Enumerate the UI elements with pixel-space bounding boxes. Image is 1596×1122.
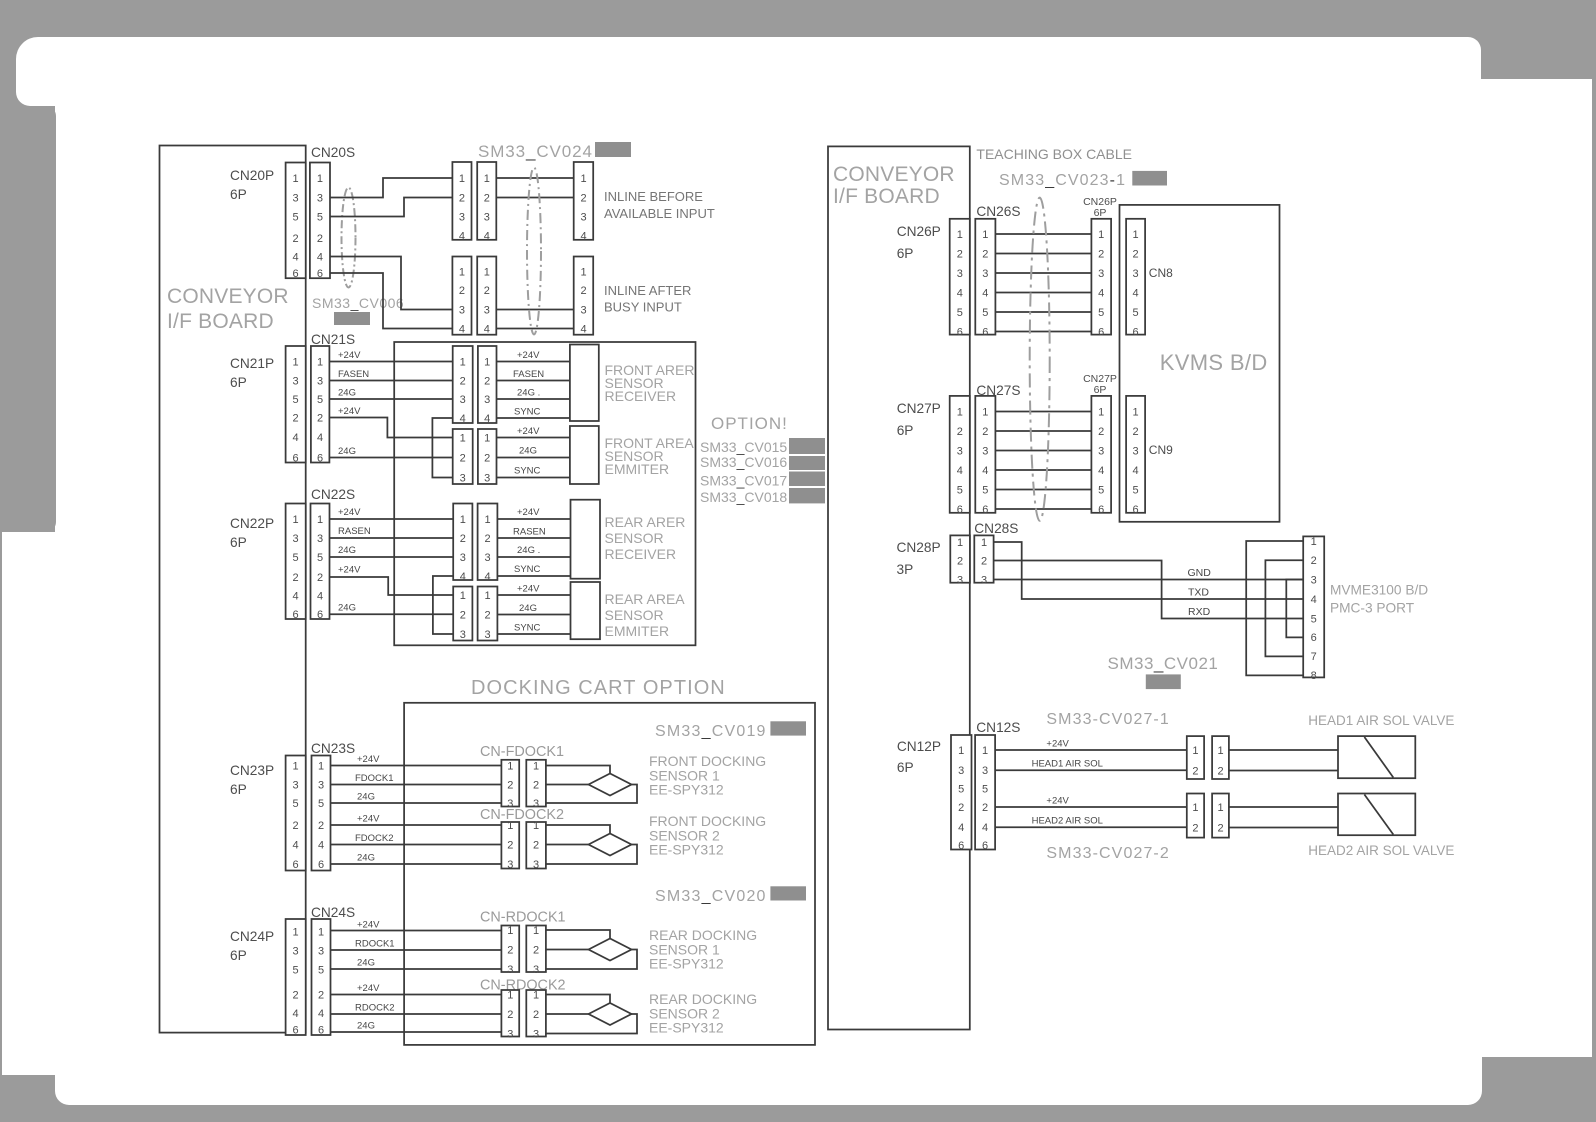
svg-text:3: 3 <box>460 472 466 484</box>
svg-text:1: 1 <box>580 173 586 185</box>
svg-text:6: 6 <box>293 1024 299 1036</box>
label CN24P 6P <box>230 929 274 963</box>
svg-text:2: 2 <box>957 426 963 438</box>
svg-text:3: 3 <box>293 945 299 957</box>
label CN27P 6P small <box>1083 373 1117 396</box>
label FRONT ARER SENSOR RECEIVER <box>605 362 695 404</box>
svg-text:1: 1 <box>484 173 490 185</box>
svg-text:CN26S: CN26S <box>976 204 1020 219</box>
svg-text:AVAILABLE INPUT: AVAILABLE INPUT <box>604 206 715 221</box>
connector CN24P <box>286 919 306 1036</box>
svg-text:SENSOR: SENSOR <box>605 607 664 623</box>
wire CN22S pin2 +24V to F1 <box>330 577 454 595</box>
label REAR DOCKING SENSOR 1 EE-SPY312 <box>649 927 757 972</box>
svg-text:FASEN: FASEN <box>338 369 369 380</box>
svg-text:2: 2 <box>484 609 490 621</box>
svg-text:1: 1 <box>957 537 963 549</box>
svg-text:3: 3 <box>957 268 963 280</box>
svg-text:1: 1 <box>293 760 299 772</box>
svg-text:1: 1 <box>982 745 988 757</box>
svg-text:8: 8 <box>1311 670 1317 682</box>
svg-text:5: 5 <box>293 798 299 810</box>
wires CN24S to CN-RDOCK2 <box>331 995 502 1033</box>
gray marker CV015 <box>789 438 825 454</box>
connector 4P inline-before right <box>477 162 496 242</box>
svg-text:SM33-CV027-1: SM33-CV027-1 <box>1046 711 1169 728</box>
wire CN22S pin3 RASEN to E1 <box>330 537 454 539</box>
svg-text:6: 6 <box>1133 326 1139 338</box>
svg-text:5: 5 <box>1311 613 1317 625</box>
svg-text:CN12S: CN12S <box>976 720 1020 735</box>
svg-text:CN-RDOCK2: CN-RDOCK2 <box>480 978 566 994</box>
svg-text:4: 4 <box>484 230 490 242</box>
svg-text:EE-SPY312: EE-SPY312 <box>649 1020 724 1036</box>
wire CN22S pin1 +24V to E1 <box>330 518 454 520</box>
svg-text:4: 4 <box>293 251 299 263</box>
svg-text:2: 2 <box>460 533 466 545</box>
svg-text:1: 1 <box>981 537 987 549</box>
wire CN12S pin4 HEAD2 AIR SOL to H3 <box>995 826 1187 828</box>
svg-text:1: 1 <box>293 926 299 938</box>
connector 4P inline-after right <box>477 257 496 336</box>
svg-text:3: 3 <box>507 964 513 976</box>
svg-text:3: 3 <box>484 472 490 484</box>
svg-text:2: 2 <box>317 412 323 424</box>
svg-text:SM33_CV015: SM33_CV015 <box>700 439 787 455</box>
svg-text:1: 1 <box>1217 802 1223 814</box>
connector CN26P cable side <box>1091 219 1111 338</box>
right board title CONVEYOR I/F BOARD <box>833 163 955 208</box>
svg-text:2: 2 <box>293 572 299 584</box>
wire labels rear receiver <box>513 507 546 575</box>
svg-text:2: 2 <box>317 233 323 245</box>
svg-text:3: 3 <box>580 304 586 316</box>
connector CN-RDOCK2 right <box>526 989 546 1040</box>
connector CN26S <box>975 219 995 338</box>
wire CN-FDOCK2 pin2 to sensor left <box>546 844 589 846</box>
svg-text:1: 1 <box>317 356 323 368</box>
rear area sensor receiver block <box>571 500 601 579</box>
svg-text:3: 3 <box>1133 268 1139 280</box>
svg-text:1: 1 <box>1311 536 1317 548</box>
wires CN24S to CN-RDOCK1 <box>331 931 502 970</box>
wire CN28S pin3 GND to MVME pin3 <box>994 579 1304 581</box>
svg-text:+24V: +24V <box>1046 796 1069 807</box>
wire D2 to emitter SYNC <box>497 477 570 479</box>
svg-text:+24V: +24V <box>357 920 380 931</box>
svg-text:SM33_CV019: SM33_CV019 <box>655 723 767 740</box>
svg-text:RASEN: RASEN <box>513 527 546 538</box>
gray marker CV018 <box>789 488 825 503</box>
svg-text:CN12P: CN12P <box>897 739 941 754</box>
svg-text:+24V: +24V <box>517 507 540 518</box>
svg-text:3: 3 <box>957 574 963 586</box>
svg-text:24G: 24G <box>338 388 356 399</box>
svg-text:1: 1 <box>957 229 963 241</box>
wire CN21S pin2 +24V to D1 <box>329 418 452 438</box>
svg-text:24G: 24G <box>357 792 375 803</box>
svg-text:6: 6 <box>1133 504 1139 516</box>
connector 4P front-receiver left <box>453 346 473 425</box>
svg-text:4: 4 <box>317 590 323 602</box>
svg-text:4: 4 <box>1098 465 1104 477</box>
svg-text:4: 4 <box>982 465 988 477</box>
connector 2P head1 right <box>1212 736 1229 779</box>
svg-text:SM33_CV018: SM33_CV018 <box>700 489 787 505</box>
svg-text:5: 5 <box>318 798 324 810</box>
svg-text:3: 3 <box>533 964 539 976</box>
svg-text:+24V: +24V <box>357 754 380 765</box>
svg-text:5: 5 <box>293 964 299 976</box>
svg-text:6: 6 <box>293 452 299 464</box>
svg-text:6P: 6P <box>230 375 247 390</box>
svg-text:1: 1 <box>533 820 539 832</box>
svg-text:CN20S: CN20S <box>311 145 355 160</box>
svg-text:6: 6 <box>982 504 988 516</box>
svg-text:GND: GND <box>1188 567 1212 579</box>
connector CN21S <box>311 346 330 464</box>
wire E2 to receiver 24G <box>497 556 570 558</box>
svg-text:6: 6 <box>1098 504 1104 516</box>
connector 4P inline-before left <box>452 162 471 242</box>
svg-text:FDOCK2: FDOCK2 <box>355 833 394 844</box>
label INLINE AFTER BUSY INPUT <box>604 283 691 315</box>
svg-text:3: 3 <box>484 211 490 223</box>
label CN23P 6P <box>230 763 274 797</box>
jumper MVME pin2 to pin7 <box>1265 560 1303 656</box>
connector CN-FDOCK2 left <box>501 820 519 871</box>
svg-text:CN22S: CN22S <box>311 487 355 502</box>
svg-text:1: 1 <box>484 266 490 278</box>
connector CN-FDOCK1 left <box>501 760 519 810</box>
svg-text:1: 1 <box>318 926 324 938</box>
svg-text:1: 1 <box>484 590 490 602</box>
svg-text:SM33_CV024: SM33_CV024 <box>478 142 593 161</box>
svg-text:1: 1 <box>317 514 323 526</box>
svg-text:3: 3 <box>460 629 466 641</box>
svg-text:CONVEYOR: CONVEYOR <box>833 163 955 186</box>
svg-text:6: 6 <box>958 840 964 852</box>
wire CN-RDOCK1 pin1 to sensor top <box>546 930 610 939</box>
svg-text:SENSOR: SENSOR <box>605 530 664 546</box>
svg-text:1: 1 <box>317 173 323 185</box>
svg-text:4: 4 <box>484 571 490 583</box>
label CN12P 6P <box>897 739 941 775</box>
connector CN24S <box>312 919 331 1036</box>
wires H4 to head2 valve <box>1229 807 1338 828</box>
svg-text:4: 4 <box>1133 465 1139 477</box>
wire CN-FDOCK1 pin3 to sensor right <box>546 785 637 804</box>
svg-text:3: 3 <box>507 859 513 871</box>
svg-text:3: 3 <box>459 304 465 316</box>
svg-text:2: 2 <box>484 375 490 387</box>
svg-text:TXD: TXD <box>1188 587 1209 599</box>
wire CN22S pin6 24G to F1 <box>330 613 454 615</box>
connector CN27P board <box>950 396 970 516</box>
wire CN21S pin5 24G to C1 <box>329 398 452 400</box>
wire CN21S pin3 FASEN to C1 <box>329 380 452 382</box>
svg-text:2: 2 <box>982 248 988 260</box>
svg-text:FDOCK1: FDOCK1 <box>355 773 394 784</box>
wires CN23S to CN-FDOCK1 <box>331 766 502 804</box>
svg-text:24G: 24G <box>338 545 356 556</box>
svg-text:CN20P: CN20P <box>230 168 274 183</box>
svg-text:3: 3 <box>484 394 490 406</box>
svg-text:I/F BOARD: I/F BOARD <box>833 185 940 208</box>
svg-text:4: 4 <box>293 432 299 444</box>
connector CN-RDOCK1 right <box>526 925 546 976</box>
svg-text:6: 6 <box>957 326 963 338</box>
wire CN-RDOCK2 pin1 to sensor top <box>546 995 610 1004</box>
wire CN-RDOCK2 pin3 to sensor right <box>546 1014 637 1034</box>
svg-text:24G: 24G <box>357 1021 375 1032</box>
svg-text:EE-SPY312: EE-SPY312 <box>649 956 724 972</box>
svg-text:3: 3 <box>318 779 324 791</box>
svg-text:5: 5 <box>982 484 988 496</box>
connector CN27P cable side <box>1091 396 1111 516</box>
svg-text:2: 2 <box>459 285 465 297</box>
svg-text:2: 2 <box>982 426 988 438</box>
wire CN-RDOCK1 pin3 to sensor right <box>546 950 637 970</box>
svg-text:1: 1 <box>293 356 299 368</box>
wire E2 to receiver SYNC <box>497 575 570 577</box>
connector MVME3100 PMC-3 <box>1303 536 1324 682</box>
wire C2 to receiver SYNC <box>497 417 570 419</box>
svg-text:4: 4 <box>460 571 466 583</box>
svg-text:3: 3 <box>317 375 323 387</box>
svg-text:RXD: RXD <box>1188 606 1211 618</box>
head1 air sol valve <box>1338 736 1415 778</box>
svg-text:SM33_CV017: SM33_CV017 <box>700 473 787 489</box>
wire SYNC bracket E1 pin4 to F1 pin3 <box>433 576 453 634</box>
svg-text:2: 2 <box>460 452 466 464</box>
svg-text:INLINE AFTER: INLINE AFTER <box>604 283 691 298</box>
svg-text:2: 2 <box>507 1009 513 1021</box>
connector CN9 <box>1126 396 1145 516</box>
svg-text:5: 5 <box>982 783 988 795</box>
label CN22P 6P <box>230 516 274 550</box>
svg-text:6: 6 <box>317 609 323 621</box>
svg-text:4: 4 <box>293 590 299 602</box>
svg-text:2: 2 <box>1098 248 1104 260</box>
jumper MVME pin3 to pin6 <box>1286 580 1303 638</box>
wire CN-FDOCK1 pin2 to sensor left <box>546 784 589 786</box>
svg-text:2: 2 <box>533 839 539 851</box>
connector CN28S <box>974 535 993 586</box>
svg-text:BUSY INPUT: BUSY INPUT <box>604 300 682 315</box>
svg-text:5: 5 <box>293 394 299 406</box>
svg-text:EE-SPY312: EE-SPY312 <box>649 782 724 798</box>
wire CN20S pin3 to A1 pin1 <box>330 178 452 198</box>
svg-text:5: 5 <box>957 484 963 496</box>
svg-text:1: 1 <box>1098 229 1104 241</box>
svg-text:TEACHING BOX CABLE: TEACHING BOX CABLE <box>976 146 1132 162</box>
svg-text:24G .: 24G . <box>517 388 540 399</box>
svg-text:1: 1 <box>507 989 513 1001</box>
svg-text:24G: 24G <box>357 958 375 969</box>
wire C2 to receiver +24V <box>497 361 570 363</box>
svg-text:6P: 6P <box>897 246 914 261</box>
label FRONT DOCKING SENSOR 1 EE-SPY312 <box>649 753 766 798</box>
svg-text:CN-FDOCK2: CN-FDOCK2 <box>480 807 564 823</box>
connector CN21P <box>286 346 306 464</box>
right conveyor I/F board box <box>828 146 970 1029</box>
label REAR AREA SENSOR EMMITER <box>605 591 686 639</box>
svg-text:SM33_CV020: SM33_CV020 <box>655 888 767 905</box>
wire CN22S pin5 24G to E1 <box>330 556 454 558</box>
gray left tab <box>0 106 56 532</box>
svg-text:2: 2 <box>318 820 324 832</box>
gray marker CV021 <box>1146 674 1181 689</box>
wire F2 to emitter 24G <box>497 614 570 616</box>
label INLINE BEFORE AVAILABLE INPUT <box>604 189 715 221</box>
svg-text:3: 3 <box>293 192 299 204</box>
wire C2 to receiver 24G <box>497 398 570 400</box>
svg-text:2: 2 <box>957 248 963 260</box>
connector CN28P <box>950 535 970 586</box>
svg-text:CN23S: CN23S <box>311 741 355 756</box>
connector 4P rear-receiver left <box>453 504 472 583</box>
sensor diamond SENSOR 1 <box>589 774 632 796</box>
wire B2 pin3 to R2 pin3 <box>496 309 573 311</box>
svg-text:4: 4 <box>460 413 466 425</box>
connector CN20P <box>286 163 306 280</box>
svg-text:5: 5 <box>957 307 963 319</box>
svg-text:4: 4 <box>957 465 963 477</box>
svg-text:1: 1 <box>507 925 513 937</box>
svg-text:CN-RDOCK1: CN-RDOCK1 <box>480 910 566 926</box>
svg-text:REAR ARER: REAR ARER <box>605 514 686 530</box>
page white bottom <box>55 1000 1482 1105</box>
svg-text:1: 1 <box>1192 745 1198 757</box>
svg-text:24G .: 24G . <box>517 545 540 556</box>
connector CN20S <box>310 163 330 280</box>
svg-text:+24V: +24V <box>338 406 361 417</box>
svg-text:2: 2 <box>958 802 964 814</box>
svg-text:6: 6 <box>317 452 323 464</box>
svg-text:3: 3 <box>982 445 988 457</box>
svg-text:SYNC: SYNC <box>514 407 541 418</box>
wire CN21S pin6 24G to D1 <box>329 457 452 459</box>
svg-text:2: 2 <box>317 572 323 584</box>
svg-text:1: 1 <box>293 514 299 526</box>
svg-text:4: 4 <box>484 323 490 335</box>
connector 4P inline-after input <box>574 257 594 336</box>
svg-text:2: 2 <box>957 555 963 567</box>
svg-text:2: 2 <box>580 285 586 297</box>
svg-text:6: 6 <box>293 609 299 621</box>
connector 4P inline-before input <box>574 162 594 242</box>
connector CN26P board <box>950 219 970 338</box>
svg-text:2: 2 <box>484 533 490 545</box>
connector 2P head2 left <box>1187 794 1204 838</box>
svg-text:3P: 3P <box>897 562 914 577</box>
wire CN-FDOCK2 pin1 to sensor top <box>546 825 610 834</box>
svg-text:2: 2 <box>1311 555 1317 567</box>
gray marker CV020 <box>770 886 806 900</box>
docking cart option box <box>404 703 815 1045</box>
svg-text:SYNC: SYNC <box>514 466 541 477</box>
svg-text:2: 2 <box>1192 822 1198 834</box>
svg-text:3: 3 <box>1098 445 1104 457</box>
wire CN-FDOCK2 pin3 to sensor right <box>546 845 637 865</box>
wire CN-FDOCK1 pin1 to sensor top <box>546 766 610 774</box>
cable shield ellipse SM33_CV024 <box>527 168 541 335</box>
svg-text:2: 2 <box>1098 426 1104 438</box>
wire labels CN23S <box>355 754 394 864</box>
svg-text:2: 2 <box>982 802 988 814</box>
svg-text:3: 3 <box>293 779 299 791</box>
svg-text:1: 1 <box>533 989 539 1001</box>
svg-text:4: 4 <box>1133 287 1139 299</box>
svg-text:1: 1 <box>1098 406 1104 418</box>
rear area sensor emitter block <box>571 582 601 639</box>
label CN27P 6P left <box>897 401 941 438</box>
cable shield ellipse SM33_CV023-1 <box>1030 198 1050 521</box>
svg-text:EMMITER: EMMITER <box>605 623 670 639</box>
wire labels CN21S side <box>338 350 369 457</box>
svg-text:1: 1 <box>459 266 465 278</box>
connector CN22S <box>311 504 330 621</box>
svg-text:EMMITER: EMMITER <box>605 461 670 477</box>
svg-text:3: 3 <box>580 211 586 223</box>
svg-text:1: 1 <box>982 406 988 418</box>
svg-text:3: 3 <box>317 533 323 545</box>
connector CN22P <box>286 504 306 621</box>
svg-text:2: 2 <box>293 820 299 832</box>
svg-text:6P: 6P <box>230 782 247 797</box>
label FRONT AREA SENSOR EMMITER <box>605 435 695 477</box>
svg-text:6: 6 <box>1311 632 1317 644</box>
svg-text:SM33_CV016: SM33_CV016 <box>700 454 787 470</box>
svg-text:4: 4 <box>293 839 299 851</box>
wire CN12S pin3 HEAD1 AIR SOL to H1 <box>995 769 1187 771</box>
svg-text:RASEN: RASEN <box>338 526 371 537</box>
svg-text:3: 3 <box>957 445 963 457</box>
svg-text:1: 1 <box>318 760 324 772</box>
svg-text:PMC-3 PORT: PMC-3 PORT <box>1330 601 1415 616</box>
svg-text:1: 1 <box>533 760 539 772</box>
wires CN23S to CN-FDOCK2 <box>331 825 502 864</box>
page white left-lower <box>2 532 100 1075</box>
svg-text:+24V: +24V <box>357 983 380 994</box>
svg-text:6P: 6P <box>897 423 914 438</box>
svg-text:3: 3 <box>460 394 466 406</box>
svg-text:CN8: CN8 <box>1149 266 1173 280</box>
wire CN28S pin2 RXD to MVME pin5 <box>994 561 1304 619</box>
connector 3P front-emitter left <box>453 429 473 484</box>
svg-text:24G: 24G <box>338 603 356 614</box>
connector CN12P <box>951 735 972 852</box>
svg-text:4: 4 <box>459 230 465 242</box>
svg-text:DOCKING CART OPTION: DOCKING CART OPTION <box>471 677 726 699</box>
connector 3P rear-emitter right <box>478 587 498 641</box>
svg-text:3: 3 <box>958 765 964 777</box>
KVMS B/D box <box>1120 205 1280 522</box>
gray marker CV017 <box>789 472 825 487</box>
svg-text:2: 2 <box>507 839 513 851</box>
svg-text:I/F BOARD: I/F BOARD <box>167 310 274 333</box>
wire CN20S pin4 to B1 pin3 <box>330 257 452 310</box>
svg-text:RECEIVER: RECEIVER <box>605 546 677 562</box>
svg-text:1: 1 <box>484 514 490 526</box>
label REAR DOCKING SENSOR 2 EE-SPY312 <box>649 991 757 1036</box>
svg-text:RECEIVER: RECEIVER <box>605 388 677 404</box>
wire D2 to emitter 24G <box>497 457 570 459</box>
svg-text:2: 2 <box>293 233 299 245</box>
svg-text:CN22P: CN22P <box>230 516 274 531</box>
svg-text:2: 2 <box>1192 765 1198 777</box>
